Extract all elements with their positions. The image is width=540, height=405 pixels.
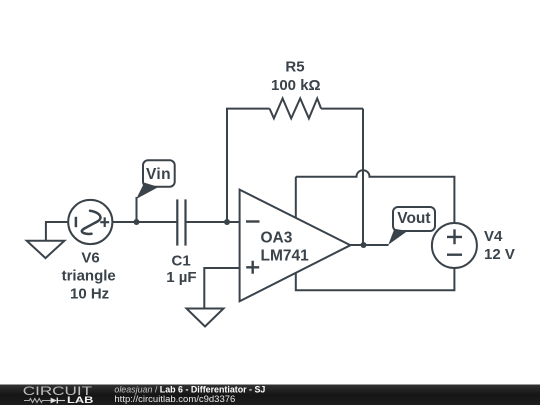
svg-text:C1: C1 [172,253,191,270]
svg-text:oleasjuan / Lab 6 - Differenti: oleasjuan / Lab 6 - Differentiator - SJ [114,384,265,394]
svg-text:Vin: Vin [146,166,171,183]
svg-text:V6: V6 [81,250,99,267]
svg-text:triangle: triangle [62,268,116,285]
svg-text:100 kΩ: 100 kΩ [271,77,321,94]
svg-text:OA3: OA3 [261,230,293,247]
svg-text:10 Hz: 10 Hz [70,286,109,303]
svg-text:Vout: Vout [397,210,430,227]
svg-text:1 µF: 1 µF [166,269,196,286]
svg-text:LAB: LAB [67,396,93,405]
svg-text:LM741: LM741 [261,247,310,264]
svg-text:http://circuitlab.com/c9d3376: http://circuitlab.com/c9d3376 [114,394,235,405]
svg-text:R5: R5 [285,59,304,76]
svg-text:12 V: 12 V [484,246,515,263]
svg-text:V4: V4 [484,228,503,245]
